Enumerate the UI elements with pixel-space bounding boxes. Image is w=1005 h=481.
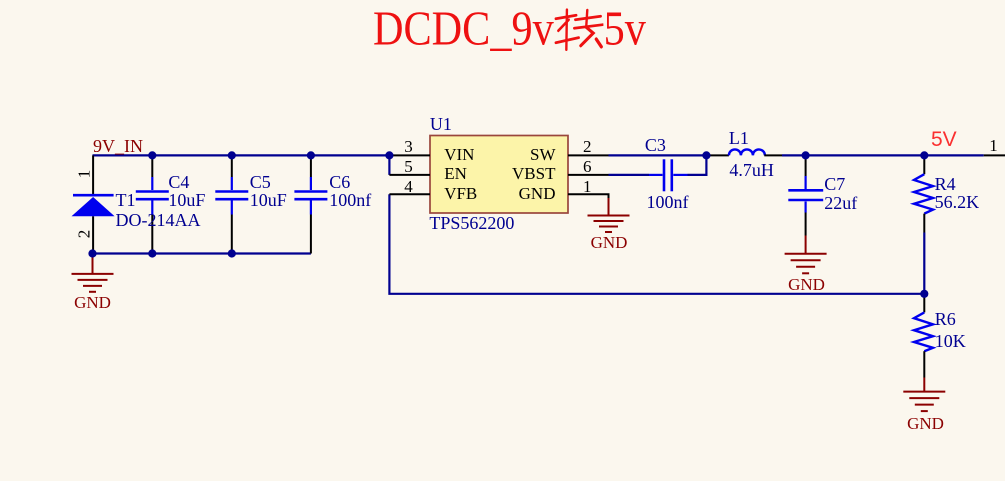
C5 designator	[250, 173, 271, 191]
node C6 top	[307, 151, 315, 159]
U1 pin number 1	[583, 178, 592, 195]
node C7 top	[802, 151, 810, 159]
U1 pin number 6	[583, 158, 592, 175]
T1 pin number 1	[75, 170, 92, 179]
U1 pin name GND	[519, 185, 556, 202]
C4 designator	[168, 173, 189, 191]
U1 pin number 3	[404, 138, 413, 155]
U1 designator	[430, 115, 452, 133]
C6 value	[329, 191, 371, 209]
C7 value	[824, 194, 857, 212]
wire: R4 bottom to feedback node	[923, 233, 925, 294]
capacitor C6	[294, 155, 327, 253]
T1 value DO-214AA	[116, 211, 201, 229]
R6 value	[935, 332, 966, 350]
transistor T1 pin 2	[92, 216, 94, 253]
C7 designator	[824, 175, 845, 193]
capacitor C3	[649, 159, 688, 191]
wire: bottom ground rail (left)	[93, 252, 311, 254]
L1 designator	[729, 129, 749, 147]
U1 pin 5	[389, 174, 430, 176]
resistor R4	[914, 155, 933, 232]
capacitor C7	[788, 155, 823, 235]
U1 pin name VIN	[444, 146, 474, 163]
L1 value	[729, 161, 774, 179]
inductor L1	[706, 149, 782, 155]
U1 pin number 5	[404, 158, 413, 175]
GND label (C7)	[788, 276, 825, 293]
node C5 top	[228, 151, 236, 159]
node C5 bottom	[228, 249, 236, 257]
U1 pin 4	[389, 193, 430, 195]
GND label (R6)	[907, 415, 944, 432]
C4 value	[168, 191, 205, 209]
wire: VBST to C3	[609, 174, 650, 176]
node FB divider	[920, 290, 928, 298]
wire: SW node to L1	[609, 154, 707, 156]
C3 designator	[645, 136, 666, 154]
T1 pin number 2	[75, 230, 92, 239]
capacitor C4	[136, 155, 169, 253]
wire: EN tie to VIN node	[388, 155, 390, 175]
R6 designator	[935, 310, 956, 328]
U1 pin name VFB	[444, 185, 477, 202]
U1 pin 3	[389, 154, 430, 156]
port pin number 1	[989, 137, 998, 154]
node GND T1	[88, 249, 96, 257]
output port pin 1	[984, 154, 1005, 156]
wire: 9V_IN top rail	[93, 154, 390, 156]
ground symbol (T1)	[72, 255, 114, 292]
U1 pin 6	[568, 174, 609, 176]
op-amp U1 body	[430, 136, 568, 214]
power port label 5V	[931, 129, 957, 150]
wire: VFB feedback net	[389, 194, 924, 293]
node 5V/R4	[920, 151, 928, 159]
GND label (U1)	[591, 234, 628, 251]
C5 value	[250, 191, 287, 209]
node VIN/EN	[385, 151, 393, 159]
U1 pin name SW	[530, 146, 556, 163]
wire: L1 to 5V output	[782, 154, 984, 156]
U1 value TPS562200	[429, 214, 514, 232]
title DCDC_9v转5v	[373, 4, 646, 54]
U1 pin number 2	[583, 138, 592, 155]
wire: C3 to SW node	[688, 155, 707, 175]
GND label (T1)	[74, 294, 111, 311]
R4 value	[935, 193, 980, 211]
node C4 bottom	[148, 249, 156, 257]
resistor R6	[914, 294, 933, 378]
U1 pin name EN	[444, 165, 467, 182]
U1 pin 1	[568, 194, 609, 199]
net label 9V_IN	[93, 137, 143, 155]
capacitor C5	[215, 155, 248, 253]
transistor T1 pin 1	[92, 155, 94, 194]
ground symbol (U1 pin1)	[588, 198, 630, 232]
diode T1 body	[72, 195, 115, 216]
U1 pin name VBST	[512, 165, 555, 182]
node C4 top	[148, 151, 156, 159]
node SW/C3	[702, 151, 710, 159]
C6 designator	[329, 173, 350, 191]
R4 designator	[935, 175, 956, 193]
T1 designator	[116, 191, 136, 209]
U1 pin 2	[568, 154, 609, 156]
ground symbol (C7)	[785, 236, 827, 274]
C3 value	[647, 193, 689, 211]
U1 pin number 4	[404, 178, 413, 195]
ground symbol (R6)	[903, 378, 945, 412]
